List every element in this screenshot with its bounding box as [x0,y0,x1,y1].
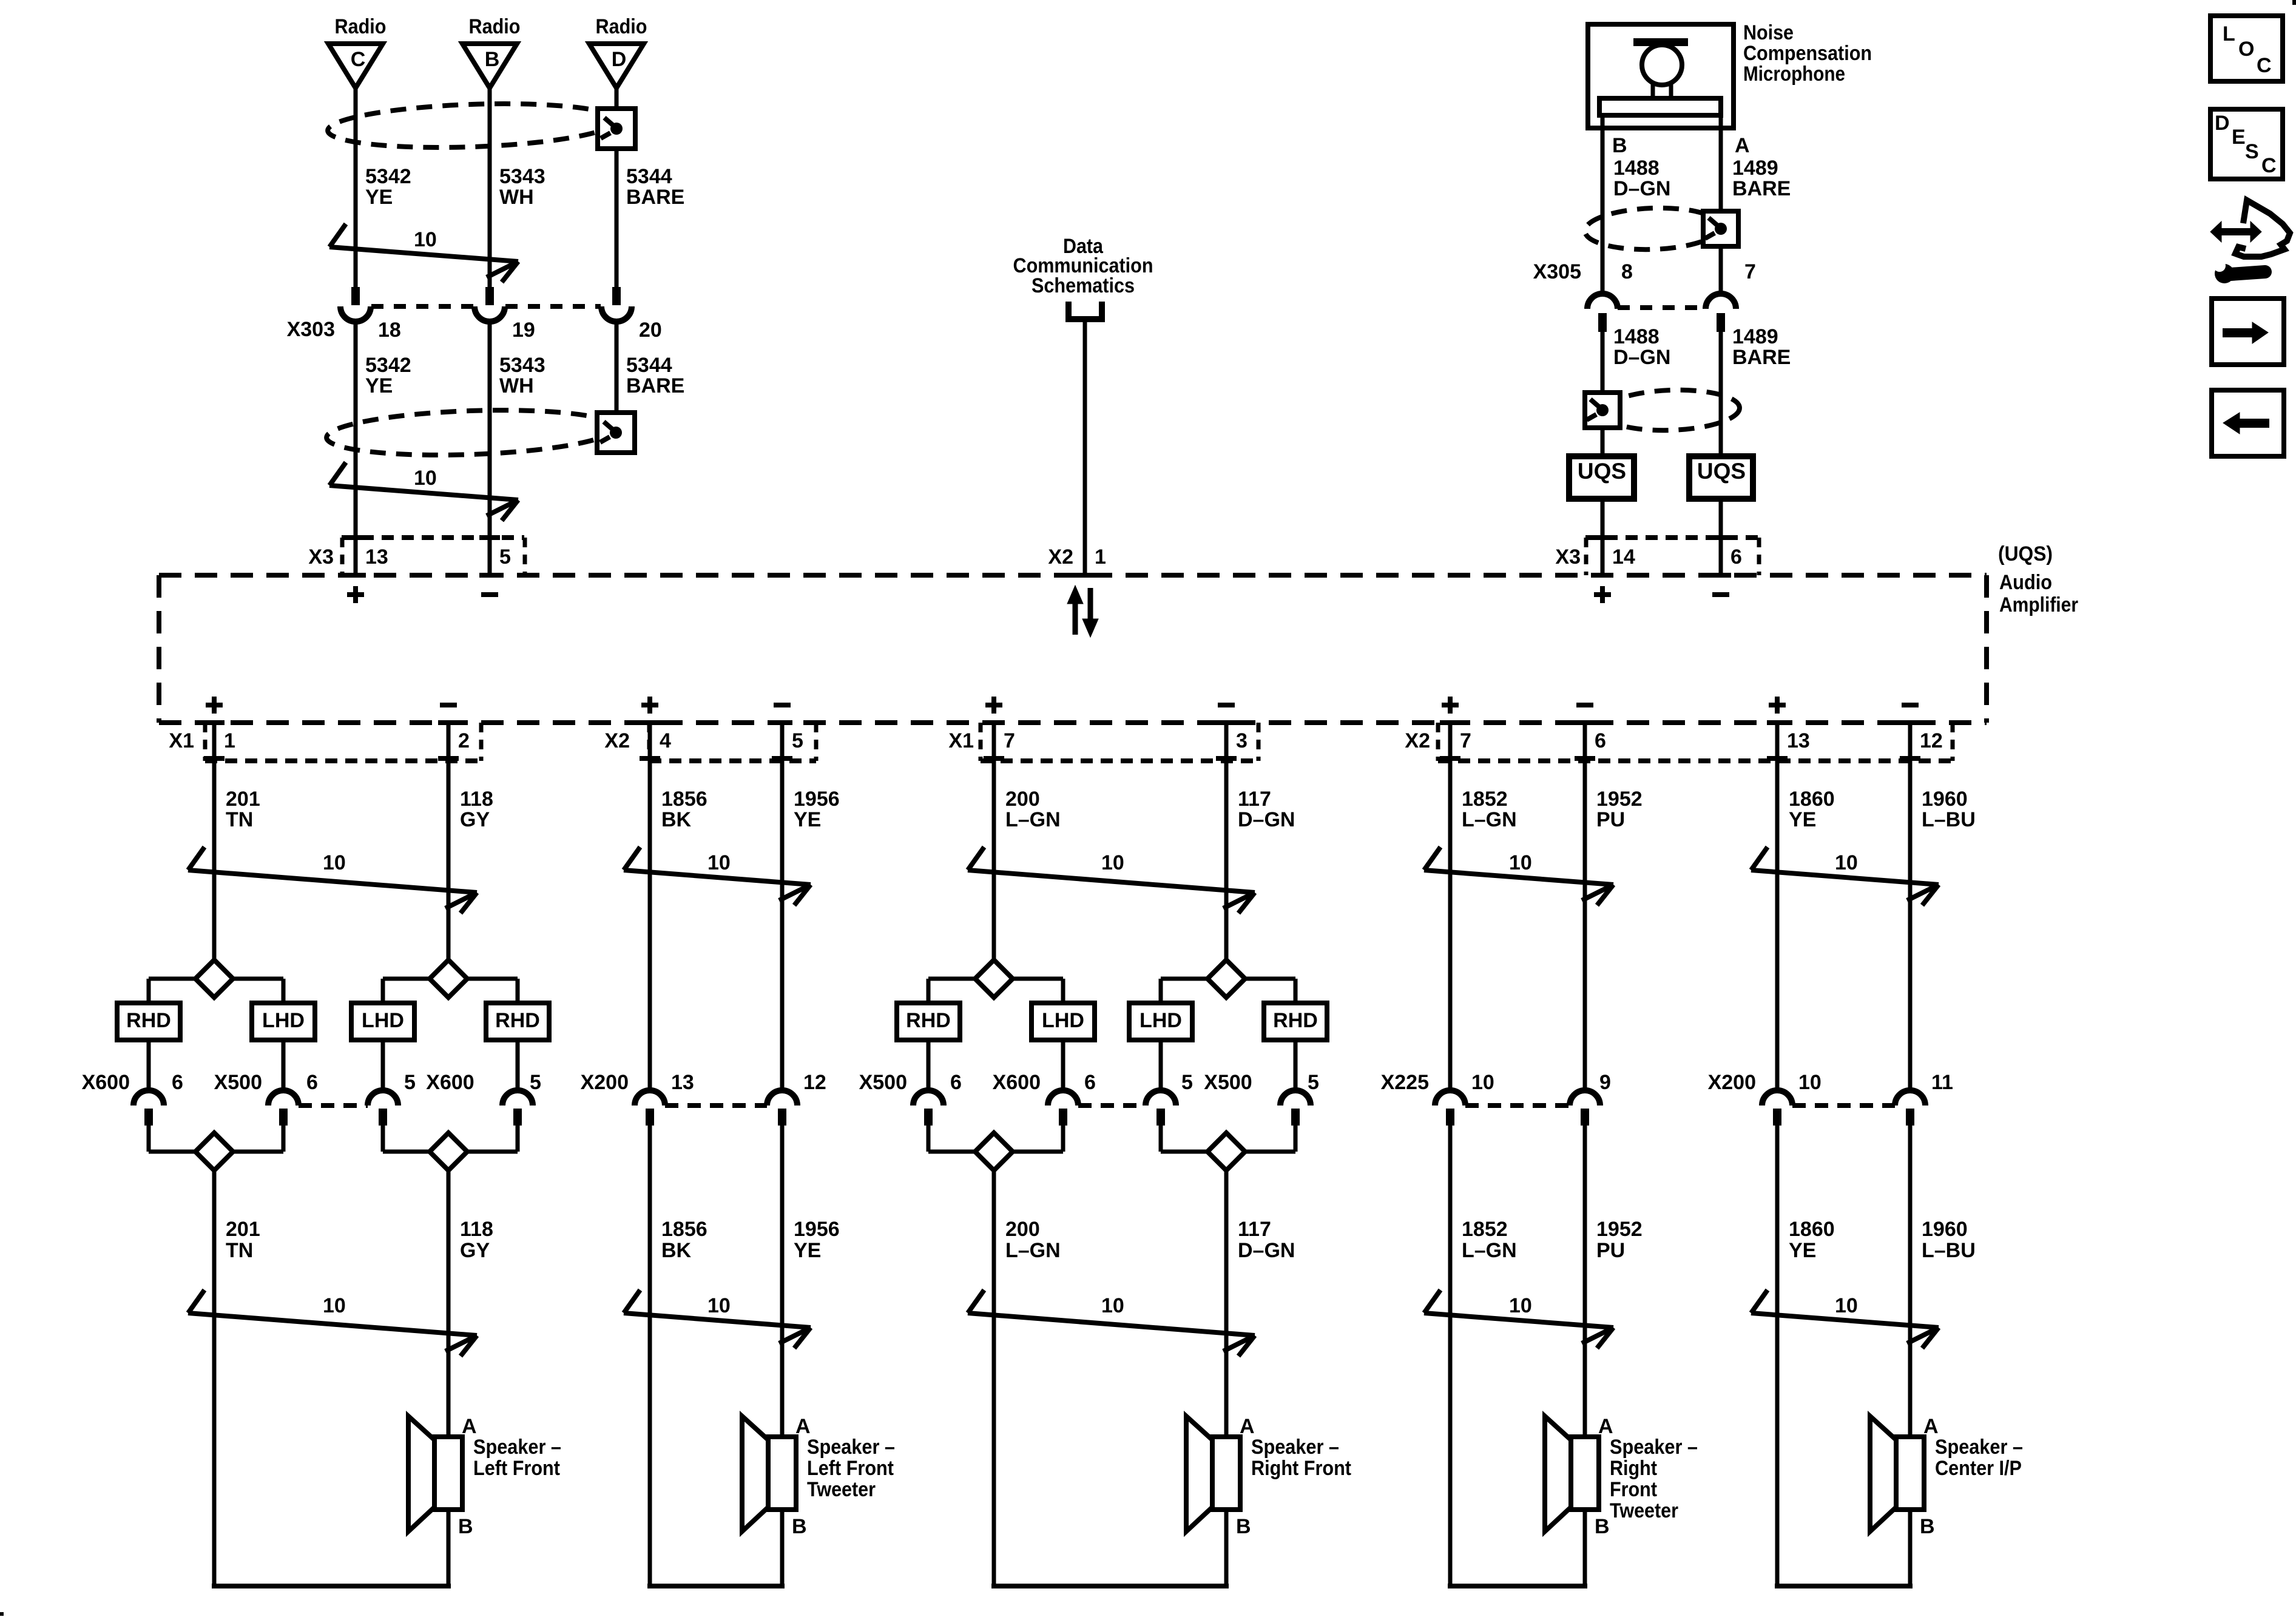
svg-text:(UQS): (UQS) [1998,542,2053,565]
svg-text:Radio: Radio [596,15,647,38]
svg-text:Tweeter: Tweeter [807,1478,876,1501]
svg-text:118: 118 [460,788,493,811]
svg-text:Schematics: Schematics [1032,274,1135,297]
svg-text:Compensation: Compensation [1743,42,1872,65]
svg-text:10: 10 [1798,1071,1822,1094]
svg-text:12: 12 [1920,729,1943,752]
svg-text:X2: X2 [604,729,630,752]
svg-text:WH: WH [499,186,534,209]
svg-text:X225: X225 [1381,1071,1429,1094]
svg-text:6: 6 [306,1071,318,1094]
svg-text:117: 117 [1238,788,1271,811]
svg-text:WH: WH [499,374,534,397]
svg-text:X1: X1 [948,729,974,752]
svg-text:LHD: LHD [1140,1009,1182,1032]
svg-text:L–GN: L–GN [1005,808,1061,831]
svg-text:1856: 1856 [661,788,707,811]
svg-text:Noise: Noise [1743,21,1794,44]
svg-text:1960: 1960 [1922,788,1968,811]
svg-text:LHD: LHD [262,1009,305,1032]
svg-text:1860: 1860 [1789,1218,1835,1241]
svg-text:C: C [351,48,366,71]
svg-text:YE: YE [365,186,393,209]
svg-text:X2: X2 [1048,545,1073,569]
svg-text:A: A [1735,134,1750,157]
svg-text:18: 18 [378,319,401,342]
svg-text:X500: X500 [214,1071,262,1094]
svg-text:RHD: RHD [126,1009,171,1032]
svg-text:B: B [1236,1515,1251,1538]
svg-text:B: B [792,1515,807,1538]
svg-text:20: 20 [639,319,662,342]
svg-text:1: 1 [1095,545,1106,569]
svg-text:X600: X600 [82,1071,130,1094]
svg-text:UQS: UQS [1578,459,1626,484]
svg-text:X200: X200 [1708,1071,1756,1094]
svg-text:UQS: UQS [1697,459,1746,484]
svg-text:L–GN: L–GN [1005,1239,1061,1262]
svg-text:C: C [2257,54,2272,77]
svg-text:Speaker –: Speaker – [807,1436,895,1459]
svg-text:X303: X303 [287,318,335,341]
svg-text:11: 11 [1931,1071,1953,1094]
svg-text:10: 10 [323,851,346,874]
svg-text:Microphone: Microphone [1743,62,1845,86]
svg-text:A: A [1598,1415,1613,1438]
svg-text:C: C [2261,154,2277,177]
svg-text:6: 6 [950,1071,962,1094]
svg-text:1956: 1956 [794,788,840,811]
svg-text:1856: 1856 [661,1218,707,1241]
svg-text:BARE: BARE [626,374,684,397]
svg-text:A: A [1923,1415,1939,1438]
svg-text:10: 10 [1101,1294,1124,1317]
svg-text:B: B [485,48,500,71]
svg-text:L–BU: L–BU [1922,1239,1976,1262]
svg-text:E: E [2232,126,2246,149]
svg-text:7: 7 [1744,260,1756,283]
svg-text:RHD: RHD [906,1009,951,1032]
svg-text:3: 3 [1236,729,1248,752]
svg-text:TN: TN [226,1239,253,1262]
svg-text:X500: X500 [859,1071,907,1094]
svg-text:5343: 5343 [499,354,545,377]
svg-text:Left Front: Left Front [473,1457,560,1480]
svg-text:Right Front: Right Front [1251,1457,1351,1480]
svg-text:Speaker –: Speaker – [1610,1436,1698,1459]
svg-text:X600: X600 [426,1071,474,1094]
svg-text:Radio: Radio [469,15,521,38]
svg-text:117: 117 [1238,1218,1271,1241]
svg-text:10: 10 [323,1294,346,1317]
svg-text:1956: 1956 [794,1218,840,1241]
svg-text:201: 201 [226,788,260,811]
svg-text:10: 10 [707,1294,731,1317]
svg-text:Speaker –: Speaker – [1251,1436,1339,1459]
svg-text:O: O [2238,38,2254,61]
svg-text:9: 9 [1599,1071,1611,1094]
svg-text:1960: 1960 [1922,1218,1968,1241]
svg-text:200: 200 [1005,788,1040,811]
svg-text:B: B [1595,1515,1610,1538]
svg-text:7: 7 [1460,729,1471,752]
svg-text:13: 13 [365,545,388,569]
svg-text:TN: TN [226,808,253,831]
svg-text:13: 13 [671,1071,694,1094]
svg-text:L: L [2223,22,2235,46]
svg-text:5342: 5342 [365,165,411,188]
svg-text:5: 5 [1181,1071,1193,1094]
svg-text:YE: YE [794,1239,821,1262]
svg-text:X200: X200 [581,1071,629,1094]
svg-text:BK: BK [661,808,692,831]
svg-text:LHD: LHD [362,1009,404,1032]
svg-text:1489: 1489 [1732,157,1778,180]
svg-text:B: B [458,1515,473,1538]
svg-text:10: 10 [414,228,437,251]
svg-text:LHD: LHD [1042,1009,1084,1032]
svg-text:PU: PU [1596,1239,1625,1262]
svg-text:10: 10 [1101,851,1124,874]
svg-text:10: 10 [1471,1071,1494,1094]
svg-text:YE: YE [1789,808,1816,831]
svg-text:1: 1 [224,729,235,752]
svg-text:5: 5 [499,545,511,569]
svg-text:Audio: Audio [1999,571,2052,594]
svg-text:5344: 5344 [626,165,672,188]
svg-text:10: 10 [707,851,731,874]
svg-text:1489: 1489 [1732,325,1778,348]
svg-text:Front: Front [1610,1478,1657,1501]
svg-text:Radio: Radio [335,15,387,38]
svg-text:D: D [612,48,627,71]
svg-text:118: 118 [460,1218,493,1241]
svg-text:D: D [2215,112,2230,135]
svg-text:A: A [1240,1415,1255,1438]
svg-text:YE: YE [365,374,393,397]
svg-text:D–GN: D–GN [1613,177,1670,200]
svg-text:BARE: BARE [1732,177,1791,200]
svg-text:X500: X500 [1204,1071,1252,1094]
svg-text:5: 5 [530,1071,541,1094]
svg-text:5342: 5342 [365,354,411,377]
svg-text:BARE: BARE [626,186,684,209]
svg-text:7: 7 [1004,729,1015,752]
svg-text:12: 12 [803,1071,826,1094]
svg-text:B: B [1612,134,1627,157]
svg-text:Right: Right [1610,1457,1657,1480]
svg-text:D–GN: D–GN [1613,346,1670,369]
svg-text:A: A [795,1415,811,1438]
svg-text:L–GN: L–GN [1462,808,1517,831]
svg-text:YE: YE [1789,1239,1816,1262]
svg-text:10: 10 [1835,851,1858,874]
svg-text:14: 14 [1612,545,1635,569]
svg-text:L–BU: L–BU [1922,808,1976,831]
svg-text:1852: 1852 [1462,1218,1508,1241]
svg-text:6: 6 [172,1071,183,1094]
svg-text:GY: GY [460,808,490,831]
svg-text:6: 6 [1084,1071,1096,1094]
svg-text:8: 8 [1621,260,1633,283]
svg-text:Left Front: Left Front [807,1457,894,1480]
svg-text:X600: X600 [993,1071,1041,1094]
svg-text:1488: 1488 [1613,325,1660,348]
svg-text:S: S [2245,140,2259,163]
svg-text:GY: GY [460,1239,490,1262]
svg-text:B: B [1920,1515,1935,1538]
svg-text:L–GN: L–GN [1462,1239,1517,1262]
svg-text:1860: 1860 [1789,788,1835,811]
svg-text:5: 5 [792,729,803,752]
svg-text:RHD: RHD [1273,1009,1318,1032]
svg-text:2: 2 [458,729,470,752]
svg-text:Amplifier: Amplifier [1999,593,2078,616]
svg-text:5: 5 [1308,1071,1319,1094]
svg-text:10: 10 [1835,1294,1858,1317]
svg-text:13: 13 [1787,729,1810,752]
svg-text:1852: 1852 [1462,788,1508,811]
svg-text:6: 6 [1730,545,1742,569]
svg-text:PU: PU [1596,808,1625,831]
svg-text:X305: X305 [1533,260,1581,283]
svg-text:5344: 5344 [626,354,672,377]
svg-text:200: 200 [1005,1218,1040,1241]
svg-text:A: A [462,1415,477,1438]
svg-text:5: 5 [404,1071,416,1094]
svg-text:X1: X1 [169,729,194,752]
svg-text:Center I/P: Center I/P [1935,1457,2022,1480]
svg-text:YE: YE [794,808,821,831]
svg-text:10: 10 [1509,851,1532,874]
svg-text:Speaker –: Speaker – [1935,1436,2023,1459]
svg-text:D–GN: D–GN [1238,1239,1295,1262]
svg-text:201: 201 [226,1218,260,1241]
svg-text:6: 6 [1595,729,1606,752]
svg-text:X2: X2 [1405,729,1430,752]
svg-text:RHD: RHD [495,1009,540,1032]
svg-text:10: 10 [414,467,437,490]
svg-text:5343: 5343 [499,165,545,188]
svg-text:Tweeter: Tweeter [1610,1499,1678,1522]
svg-text:X3: X3 [308,545,334,569]
svg-text:D–GN: D–GN [1238,808,1295,831]
svg-text:19: 19 [512,319,535,342]
svg-text:BK: BK [661,1239,692,1262]
svg-text:BARE: BARE [1732,346,1791,369]
svg-text:4: 4 [660,729,671,752]
svg-text:X3: X3 [1555,545,1581,569]
svg-text:1488: 1488 [1613,157,1660,180]
svg-text:Speaker –: Speaker – [473,1436,561,1459]
svg-text:10: 10 [1509,1294,1532,1317]
svg-text:1952: 1952 [1596,1218,1643,1241]
svg-text:1952: 1952 [1596,788,1643,811]
